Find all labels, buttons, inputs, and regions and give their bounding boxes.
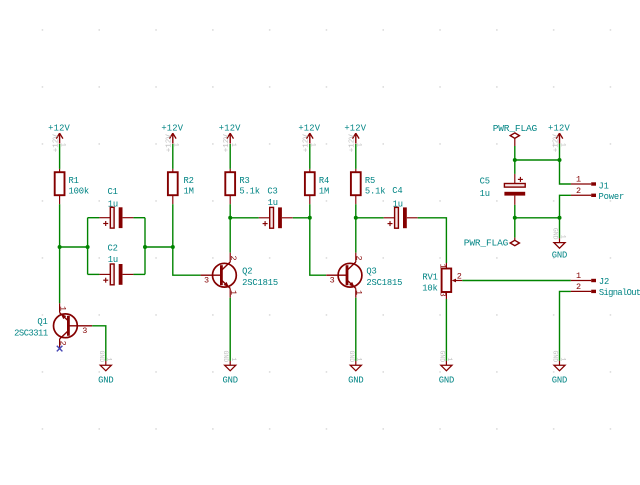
junction at (559.5,160) [558,158,562,162]
power symbol +12V #1 (R1) [48,124,70,153]
capacitor C1 1u [99,187,133,228]
svg-text:+12V: +12V [298,124,320,134]
svg-text:C4: C4 [392,186,402,196]
svg-text:+12V: +12V [548,124,570,134]
svg-text:5.1k: 5.1k [365,186,386,196]
wire bus to Q2 base [173,247,201,275]
svg-text:1: 1 [173,143,180,147]
svg-text:1: 1 [230,143,237,147]
svg-text:C1: C1 [107,187,117,197]
junction at (514.8,160) [513,158,517,162]
wire C1/C2 right vertical [144,218,146,275]
svg-text:2: 2 [576,186,581,196]
wire R4 node to Q3 base [310,218,326,275]
junction at (145.0,247) [143,245,147,249]
junction at (309.8,217.8) [308,216,312,220]
svg-text:C3: C3 [267,187,277,197]
svg-text:GND: GND [551,350,558,362]
svg-text:R1: R1 [69,176,79,186]
power symbol +12V #4 (R4) [298,124,320,153]
wire C1/C2 left vertical [87,218,89,275]
potentiometer RV1 10k [422,263,462,299]
svg-text:1: 1 [106,357,113,361]
svg-text:Power: Power [599,192,625,202]
wire J2 pin2 to GND [560,291,571,361]
svg-text:2SC1815: 2SC1815 [242,278,278,288]
wire R2 bottom to bus [172,204,174,247]
svg-text:Q3: Q3 [366,266,376,276]
pin PWR_FLAG bottom [514,238,516,241]
power symbol +12V #5 (R5) [344,124,366,153]
power symbol GND #6 (Power) [551,228,567,261]
svg-text:2: 2 [354,255,364,260]
svg-text:1M: 1M [184,186,194,196]
svg-text:2SC1815: 2SC1815 [366,278,402,288]
svg-text:PWR_FLAG: PWR_FLAG [493,123,538,134]
svg-text:GND: GND [98,350,105,362]
svg-text:1: 1 [354,290,364,295]
svg-text:1: 1 [559,357,566,361]
svg-text:1: 1 [230,357,237,361]
svg-text:2: 2 [457,271,462,281]
capacitor C5 1u [480,174,526,205]
wire Q2 emitter to GND [229,298,231,361]
svg-text:R5: R5 [365,176,375,186]
wire Q3 emitter to GND [355,298,357,361]
svg-text:10k: 10k [422,283,437,293]
power symbol GND #3 (Q3) [348,350,364,385]
wire bus right segment [145,246,173,248]
resistor R4 1M [305,169,329,204]
svg-text:2: 2 [228,255,238,260]
svg-text:1: 1 [356,357,363,361]
svg-text:3: 3 [330,276,335,286]
wire bus left segment [60,246,88,248]
svg-text:GND: GND [98,376,113,386]
wire +12V to R2 [172,144,174,169]
svg-text:J2: J2 [599,277,609,287]
power flag PWR_FLAG #2 [464,237,520,248]
wire C5 top rail [515,159,560,161]
resistor R2 1M [168,169,194,204]
wire to C1 left [88,217,100,219]
svg-text:1: 1 [438,264,448,269]
wire node to C3 left [230,217,259,219]
junction at (230.2,217.8) [228,216,232,220]
svg-text:1: 1 [228,290,238,295]
svg-text:GND: GND [438,350,445,362]
svg-text:C2: C2 [107,244,117,254]
connector J2 SignalOut [571,271,640,298]
wire C3 right to R4 node [293,217,310,219]
svg-text:SignalOut: SignalOut [599,288,640,298]
svg-text:GND: GND [223,376,238,386]
svg-text:+12V: +12V [48,124,70,134]
wire Q1 base to GND [92,326,106,361]
wire GND node down [559,218,561,239]
svg-text:1u: 1u [108,199,118,209]
no-connect X on Q1 pin 2 [57,346,63,352]
svg-text:1u: 1u [268,198,278,208]
power symbol GND #2 (Q2) [222,350,238,385]
wire C1 right [133,217,145,219]
wire node to Q2 collector [229,218,231,253]
svg-text:PWR_FLAG: PWR_FLAG [464,237,509,248]
power symbol +12V #6 (J1) [548,124,570,153]
svg-text:1: 1 [58,306,68,311]
connector J1 Power [571,175,624,202]
capacitor C3 1u [259,187,293,229]
wire +12V to R1 [59,144,61,169]
svg-text:5.1k: 5.1k [239,186,260,196]
svg-text:+12V: +12V [161,124,183,134]
svg-text:1: 1 [576,271,581,281]
svg-text:100k: 100k [69,186,90,196]
svg-text:C5: C5 [480,176,490,186]
svg-text:2: 2 [576,282,581,292]
svg-text:1M: 1M [319,186,329,196]
svg-text:1: 1 [576,175,581,185]
capacitor C2 1u [99,244,133,285]
wire J1 pin2 to GND node [560,195,571,218]
wire R3 bottom to node [229,204,231,218]
svg-text:+12V: +12V [344,124,366,134]
power symbol +12V #3 (R3) [219,124,241,153]
wire to C2 left [88,273,100,275]
wire node to Q3 collector [355,218,357,253]
resistor R1 100k [55,169,89,204]
svg-text:3: 3 [438,292,448,297]
svg-text:R3: R3 [239,176,249,186]
svg-text:GND: GND [552,376,567,386]
svg-text:R2: R2 [184,176,194,186]
svg-text:+12V: +12V [219,124,241,134]
svg-text:GND: GND [348,350,355,362]
wire node to PWR_FLAG bottom [514,218,516,238]
svg-text:2: 2 [58,341,68,346]
transistor Q2 2SC1815 [201,253,278,298]
svg-text:1u: 1u [480,189,490,199]
svg-text:1: 1 [356,143,363,147]
svg-text:J1: J1 [599,182,609,192]
wire C4 right to RV1 top [418,218,447,263]
junction at (172.8,247) [171,245,175,249]
wire node to C5 top [514,160,516,174]
svg-text:2SC3311: 2SC3311 [14,328,48,338]
svg-text:GND: GND [552,251,567,261]
junction at (514.8,217.8) [513,216,517,220]
svg-text:3: 3 [82,326,87,336]
transistor Q3 2SC1815 [326,253,402,298]
svg-text:Q1: Q1 [37,317,47,327]
svg-text:Q2: Q2 [242,266,252,276]
svg-text:1: 1 [59,143,66,147]
wire +12V to J1 node [559,144,561,160]
wire +12V node to J1 pin1 [560,160,571,184]
junction at (87.6,247) [86,245,90,249]
wire RV1 bottom to GND [445,299,447,361]
wire C5 bottom rail [515,217,560,219]
wire PWR_FLAG to node [514,146,516,160]
power symbol GND #1 (Q1) [98,350,114,385]
wire node to C4 left [356,217,384,219]
transistor Q1 2SC3311 [14,303,92,348]
capacitor C4 1u [384,186,418,228]
svg-text:GND: GND [439,376,454,386]
svg-text:1: 1 [310,143,317,147]
wire +12V to R4 [309,144,311,169]
power flag PWR_FLAG #1 [493,123,538,138]
resistor R5 5.1k [351,169,386,204]
svg-text:3: 3 [204,276,209,286]
svg-text:1: 1 [446,357,453,361]
svg-text:1u: 1u [108,255,118,265]
svg-text:GND: GND [222,350,229,362]
svg-text:GND: GND [551,228,558,240]
svg-text:R4: R4 [319,176,329,186]
resistor R3 5.1k [225,169,260,204]
svg-text:GND: GND [348,376,363,386]
wire R4 bottom to node [309,204,311,218]
power symbol GND #4 (RV1) [438,350,454,385]
wire RV1 wiper to J2 pin1 [462,280,571,282]
junction at (355.8,217.8) [354,216,358,220]
svg-text:1u: 1u [393,200,403,210]
wire R1 bottom to Q1 [59,204,61,303]
wire C5 bottom to node [514,205,516,218]
wire R5 bottom to node [355,204,357,218]
svg-text:1: 1 [559,143,566,147]
power symbol GND #5 (J2) [551,350,567,385]
wire +12V to R5 [355,144,357,169]
junction at (59.6,247) [58,245,62,249]
junction at (559.5,217.8) [558,216,562,220]
svg-text:RV1: RV1 [422,272,437,282]
svg-text:1: 1 [559,235,566,239]
wire +12V to R3 [229,144,231,169]
power symbol +12V #2 (R2) [161,124,183,153]
pin PWR_FLAG top [514,138,516,146]
wire C2 right [133,273,145,275]
